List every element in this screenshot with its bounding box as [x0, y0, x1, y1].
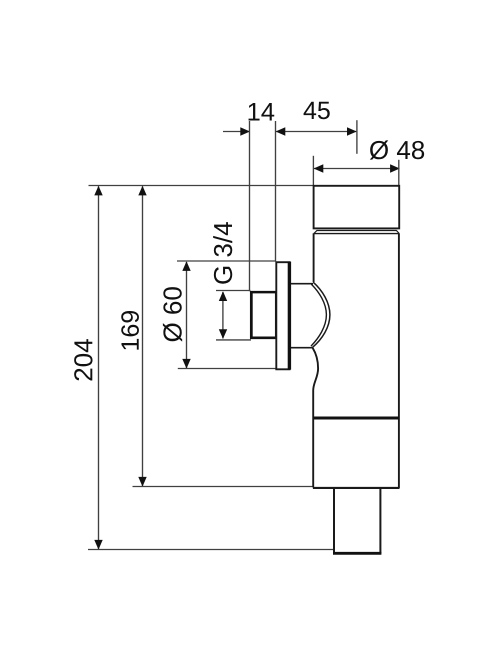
extension line 169 bottom — [133, 486, 314, 488]
outlet pipe right edge — [379, 488, 381, 553]
arrowhead right at x=399.8 — [390, 164, 400, 172]
label 14 — [249, 103, 275, 121]
arrowhead right at x=356.7 — [347, 127, 357, 135]
dimension line 204 vertical — [98, 186, 100, 549]
dimension line diameter 60 vertical — [186, 262, 188, 368]
dimension line G 3/4 vertical — [222, 292, 224, 338]
arrowhead left at x=313.6 — [314, 164, 324, 172]
label 204 (rotated) — [74, 339, 92, 380]
extension stub body axis — [356, 120, 358, 154]
label 169 (rotated) — [121, 311, 139, 350]
arrowhead up d60 — [182, 261, 190, 271]
valve body top edge — [314, 233, 399, 235]
nut left thick edge — [250, 291, 253, 339]
arrowhead up 169 — [138, 186, 146, 196]
arrowhead up G34 — [219, 291, 227, 301]
arrowhead down 169 — [138, 477, 146, 487]
dimension line 169 vertical — [142, 186, 144, 486]
label G 3/4 (rotated) — [213, 222, 232, 284]
side port dome inner arc — [311, 284, 326, 346]
valve cap (top) — [314, 186, 400, 229]
nut bottom thick edge — [250, 336, 276, 339]
extension line body right top — [398, 160, 400, 186]
label 45 — [304, 102, 330, 119]
nut top thick edge — [250, 291, 276, 294]
valve body right edge — [398, 233, 400, 488]
outlet pipe bottom — [333, 552, 381, 555]
extension line G34 top — [216, 290, 250, 292]
extension line body left top — [312, 156, 314, 186]
extension line nut left — [249, 121, 251, 291]
arrowhead left at x=275.6 — [276, 127, 286, 135]
extension line d60 top — [177, 260, 276, 262]
extension line G34 bottom — [216, 339, 251, 341]
arrowhead down 204 — [94, 540, 102, 550]
side port bottom line — [290, 347, 313, 349]
dimension line diameter 48 — [314, 168, 399, 170]
valve body left edge lower (with bulge) — [313, 348, 318, 487]
side port top line — [290, 283, 313, 285]
side port dome outer arc — [313, 282, 330, 347]
extension line top (cap top level) — [89, 185, 314, 187]
outlet pipe left edge — [333, 488, 335, 553]
dimension line 14/45 horizontal — [223, 131, 356, 133]
arrowhead down G34 — [219, 329, 227, 339]
thick separator line — [313, 417, 399, 420]
inlet nut — [251, 292, 276, 338]
valve body bottom edge — [313, 487, 400, 489]
label diameter 60 (rotated) — [163, 287, 182, 341]
arrowhead right at x=250 — [240, 127, 250, 135]
extension line d60 bottom — [178, 368, 277, 370]
label diameter 48 — [370, 140, 424, 159]
extension line 204 bottom — [88, 549, 334, 551]
flange right thick edge — [288, 262, 291, 370]
extension line flange left — [275, 121, 277, 262]
wall flange — [276, 262, 289, 369]
valve body left edge upper — [313, 233, 315, 282]
arrowhead down d60 — [182, 359, 190, 369]
arrowhead up 204 — [94, 186, 102, 196]
cap groove band — [314, 231, 399, 234]
